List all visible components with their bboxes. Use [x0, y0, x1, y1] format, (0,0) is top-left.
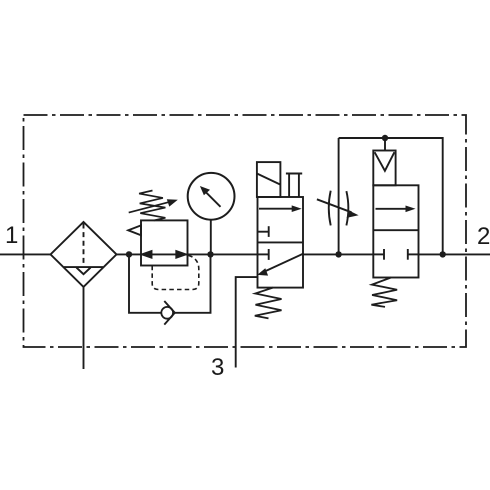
valve V2 return spring — [371, 278, 397, 307]
valve V1 exhaust path arrow — [257, 254, 303, 276]
junction node B — [207, 251, 213, 257]
valve V2 pilot check box — [373, 151, 395, 186]
wire valve V2 to port 2 — [419, 253, 490, 255]
junction node A — [126, 251, 132, 257]
check valve CV1 bypass wire right — [175, 254, 211, 312]
check valve CV1 bypass wire left — [129, 254, 161, 312]
valve V1 lower position blocked port — [258, 249, 269, 260]
wire filter to valve V1 — [117, 253, 258, 255]
svg-text:2: 2 — [477, 223, 490, 250]
enclosure border — [24, 115, 467, 347]
check valve CV1 — [161, 301, 175, 325]
pilot line top — [339, 138, 443, 254]
regulator adjustment arrow — [129, 199, 178, 212]
valve V1 solenoid coil — [257, 162, 281, 197]
valve V1 upper position blocked port — [258, 226, 269, 237]
valve V1 body (3/2 solenoid valve) — [258, 197, 304, 288]
valve V1 upper position flow arrow — [259, 205, 302, 212]
junction node C — [335, 251, 341, 257]
regulator vent triangle — [128, 225, 141, 235]
port 3 exhaust wire — [236, 277, 258, 367]
regulator spring — [139, 191, 165, 221]
junction node D — [440, 251, 446, 257]
regulator pilot feedback dashed line — [152, 255, 199, 289]
regulator R1 body — [141, 220, 188, 265]
valve V1 return spring — [255, 288, 282, 319]
pilot stem — [384, 138, 386, 151]
svg-text:1: 1 — [5, 222, 18, 249]
regulator flow arrows — [142, 251, 186, 258]
throttle pilot wire lower — [338, 138, 340, 254]
junction node E — [382, 135, 388, 141]
wire valve V1 to valve V2 — [303, 253, 373, 255]
valve V2 body (2/2 pilot valve) — [373, 185, 418, 277]
filter drain line — [83, 287, 85, 369]
valve V2 upper position flow arrow — [376, 206, 416, 213]
valve V2 lower position blocked port left — [373, 249, 384, 260]
valve V2 lower position blocked port right — [408, 249, 419, 260]
flow control valve FC1 — [317, 191, 359, 226]
filter F1 water separator — [51, 222, 117, 287]
valve V1 manual override — [286, 174, 302, 198]
gauge G1 — [188, 173, 235, 254]
svg-text:3: 3 — [211, 354, 224, 381]
wire port1 to filter — [0, 253, 51, 255]
